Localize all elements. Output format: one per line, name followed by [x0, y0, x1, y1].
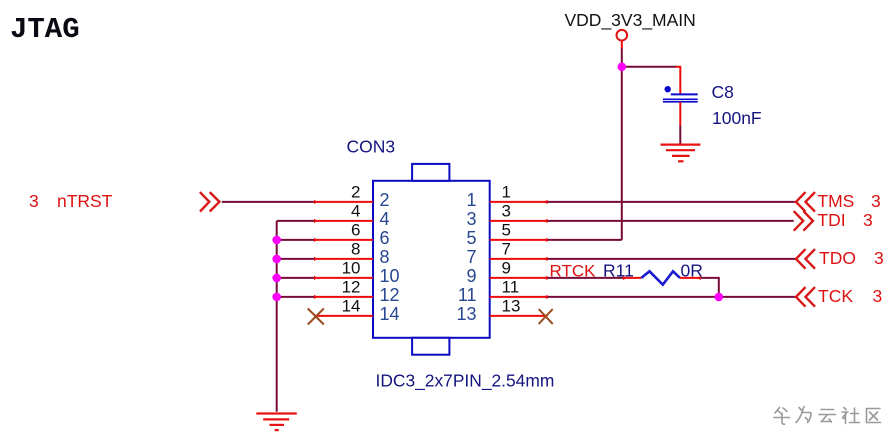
- svg-text:2: 2: [351, 182, 360, 201]
- svg-text:CON3: CON3: [347, 136, 396, 156]
- wire TDO pin7 to port: [547, 258, 796, 260]
- ground below C8: [661, 145, 701, 162]
- capacitor C8: [663, 86, 698, 102]
- svg-text:TCK: TCK: [818, 286, 853, 306]
- svg-text:TDI: TDI: [817, 210, 845, 230]
- svg-text:4: 4: [380, 209, 390, 229]
- ground left bus: [256, 414, 297, 431]
- pins left red stubs: [314, 202, 373, 316]
- wire VDD branch to C8: [622, 66, 677, 68]
- junction bus pin8: [272, 255, 281, 264]
- svg-text:4: 4: [351, 201, 360, 220]
- svg-text:C8: C8: [712, 82, 734, 102]
- pin numbers outside left: [342, 182, 361, 315]
- wire TMS pin1 to port: [547, 201, 796, 203]
- svg-text:8: 8: [380, 247, 390, 267]
- power symbol VDD_3V3_MAIN circle: [617, 30, 628, 41]
- wire R11 to TCK net: [701, 278, 719, 297]
- resistor R11 left pin: [623, 277, 641, 279]
- port TCK chevrons: [796, 287, 815, 307]
- svg-text:RTCK: RTCK: [550, 262, 597, 281]
- svg-text:10: 10: [342, 258, 361, 277]
- svg-text:3: 3: [871, 191, 881, 211]
- svg-text:11: 11: [502, 277, 520, 296]
- svg-text:12: 12: [380, 285, 400, 305]
- svg-text:12: 12: [342, 277, 361, 296]
- wire pin5 horizontal: [547, 239, 621, 241]
- wire pin10 from bus: [277, 277, 314, 279]
- svg-text:3: 3: [29, 191, 39, 211]
- wire left ground bus vertical: [276, 221, 278, 412]
- wire pin8 from bus: [277, 258, 314, 260]
- pins right red stubs: [490, 202, 548, 316]
- svg-text:IDC3_2x7PIN_2.54mm: IDC3_2x7PIN_2.54mm: [376, 371, 555, 391]
- svg-text:11: 11: [458, 285, 477, 305]
- svg-text:9: 9: [502, 258, 511, 277]
- wire RTCK pin9 to R11: [547, 277, 623, 279]
- junction TCK RTCK: [715, 293, 724, 302]
- pin numbers inside left: [380, 190, 400, 324]
- svg-text:JTAG: JTAG: [10, 13, 80, 46]
- port TDI chevrons: [794, 211, 813, 231]
- svg-text:3: 3: [873, 286, 883, 306]
- resistor R11 right pin: [680, 277, 701, 279]
- junction bus pin6: [272, 236, 281, 245]
- svg-text:5: 5: [502, 220, 511, 239]
- wire TDI pin3 to port: [547, 220, 793, 222]
- svg-text:1: 1: [502, 182, 511, 201]
- svg-text:6: 6: [380, 228, 390, 248]
- connector CON3 body: [373, 181, 490, 338]
- connector CON3 top tab: [412, 164, 449, 181]
- pin end markers: [314, 200, 547, 319]
- junction VDD node: [618, 63, 627, 72]
- svg-text:10: 10: [380, 266, 400, 286]
- wire TCK pin11 to port: [547, 296, 796, 298]
- svg-text:7: 7: [502, 239, 511, 258]
- wire nTRST to pin2: [222, 201, 314, 203]
- no-connect X pin14: [308, 309, 324, 325]
- wire VDD vertical from circle to pin5 row: [621, 41, 623, 49]
- svg-text:8: 8: [351, 239, 360, 258]
- watermark huawei cloud community: [774, 407, 881, 425]
- svg-text:14: 14: [380, 304, 400, 324]
- svg-text:5: 5: [466, 228, 476, 248]
- wire pin12 from bus: [277, 296, 314, 298]
- no-connect X pin13: [539, 309, 553, 324]
- svg-text:TDO: TDO: [819, 248, 856, 268]
- svg-text:7: 7: [466, 247, 476, 267]
- pin numbers outside right: [502, 182, 521, 315]
- port TMS chevrons: [796, 192, 815, 212]
- svg-text:2: 2: [380, 190, 390, 210]
- R11 pin end markers: [623, 276, 701, 281]
- wire red corner into C8 top pin: [676, 67, 681, 94]
- port TDO chevrons: [796, 249, 815, 269]
- port nTRST chevrons: [200, 192, 220, 211]
- wire pin4 from bus: [277, 220, 314, 222]
- svg-text:9: 9: [466, 266, 476, 286]
- svg-text:14: 14: [342, 296, 361, 315]
- svg-text:VDD_3V3_MAIN: VDD_3V3_MAIN: [565, 10, 696, 31]
- svg-text:3: 3: [466, 209, 476, 229]
- svg-text:13: 13: [456, 304, 476, 324]
- svg-text:3: 3: [863, 210, 873, 230]
- wire C8 to ground: [679, 125, 681, 143]
- connector CON3 bottom tab: [412, 338, 449, 355]
- wire pin6 from bus: [277, 239, 314, 241]
- wire C8 bottom pin: [679, 102, 681, 125]
- svg-text:nTRST: nTRST: [57, 191, 113, 211]
- svg-text:TMS: TMS: [817, 191, 854, 211]
- svg-text:13: 13: [502, 296, 521, 315]
- svg-text:1: 1: [466, 190, 476, 210]
- resistor R11 zigzag: [641, 271, 680, 284]
- svg-text:6: 6: [351, 220, 360, 239]
- junction bus pin12: [272, 293, 281, 302]
- svg-text:3: 3: [502, 201, 511, 220]
- junction bus pin10: [272, 274, 281, 283]
- svg-text:100nF: 100nF: [712, 108, 762, 128]
- pin numbers inside right: [456, 190, 476, 324]
- svg-text:3: 3: [874, 248, 884, 268]
